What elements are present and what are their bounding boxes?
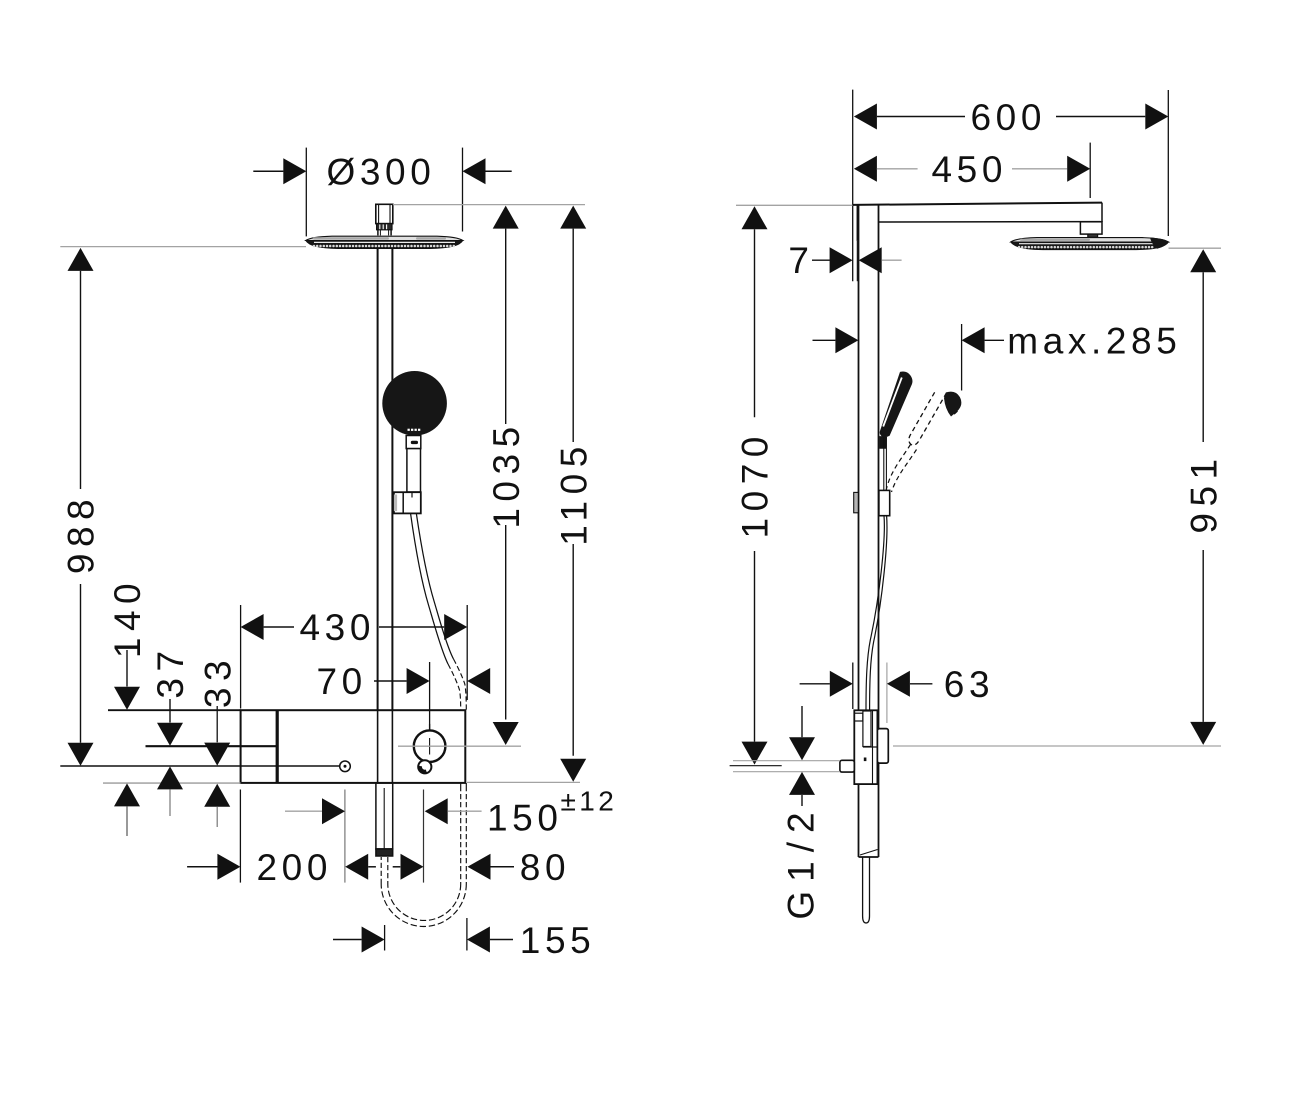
svg-text:37: 37 <box>150 644 191 698</box>
svg-text:80: 80 <box>520 847 570 888</box>
svg-text:max.285: max.285 <box>1007 321 1181 362</box>
svg-text:1035: 1035 <box>486 420 527 528</box>
svg-text:600: 600 <box>971 97 1047 138</box>
svg-text:Ø300: Ø300 <box>327 151 436 192</box>
svg-text:150: 150 <box>487 797 563 838</box>
svg-text:70: 70 <box>317 661 367 702</box>
svg-text:±12: ±12 <box>561 786 618 817</box>
svg-text:450: 450 <box>932 149 1008 190</box>
svg-text:140: 140 <box>107 577 148 658</box>
svg-text:200: 200 <box>257 847 333 888</box>
svg-text:988: 988 <box>61 493 102 574</box>
svg-text:33: 33 <box>197 654 238 708</box>
svg-text:951: 951 <box>1183 452 1224 533</box>
svg-text:155: 155 <box>520 920 596 961</box>
svg-text:1105: 1105 <box>553 440 594 546</box>
svg-text:63: 63 <box>944 664 994 705</box>
svg-text:430: 430 <box>300 607 376 648</box>
svg-text:7: 7 <box>788 240 813 281</box>
svg-text:1070: 1070 <box>735 430 776 538</box>
svg-text:G1/2: G1/2 <box>781 803 822 919</box>
